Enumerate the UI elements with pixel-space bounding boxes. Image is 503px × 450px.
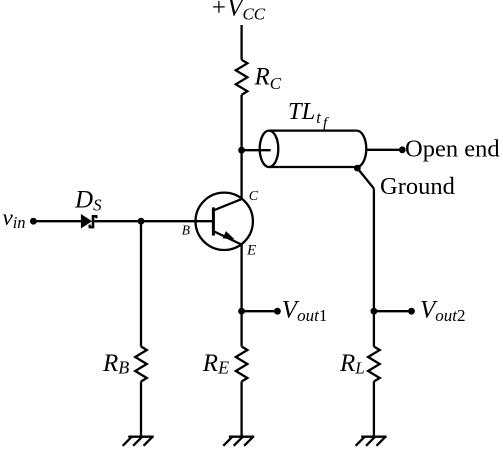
diode DS	[81, 214, 97, 229]
wire ground lead down to Vout2 junction	[373, 189, 375, 312]
wire base junction down to RB	[140, 221, 142, 346]
wire stub into TL	[242, 149, 271, 151]
node Vout1 terminal	[274, 308, 281, 315]
label Vout1	[282, 297, 328, 325]
wire vin to diode	[33, 220, 81, 222]
resistor RC	[236, 60, 248, 95]
wire emitter down to Vout1 junction	[240, 245, 242, 347]
label Vout2	[420, 297, 466, 325]
ground (RE)	[223, 437, 254, 446]
wire TL to open end	[366, 149, 402, 151]
svg-text:Open end: Open end	[405, 136, 500, 163]
label Ground	[380, 173, 455, 200]
node Vout2 terminal	[408, 308, 415, 315]
label RC	[254, 64, 282, 93]
svg-text:B: B	[182, 222, 190, 237]
wire diode to base junction	[94, 220, 141, 222]
ground (RB)	[123, 437, 154, 446]
wire Vout2 tap	[374, 310, 412, 312]
resistor RE	[236, 347, 248, 382]
wire TL ground diagonal	[357, 168, 374, 188]
wire RB to ground	[140, 382, 142, 437]
node open end terminal	[399, 146, 406, 153]
node TL junction dot	[238, 147, 245, 154]
svg-text:E: E	[246, 242, 256, 258]
transistor Q1	[196, 193, 253, 250]
label RE	[202, 350, 229, 378]
label B	[182, 222, 190, 237]
label vin	[3, 205, 26, 232]
transmission line TL body	[269, 129, 357, 131]
label Open end	[405, 136, 500, 163]
label C	[249, 189, 259, 204]
label RB	[102, 350, 129, 378]
resistor RL	[368, 347, 380, 382]
label RL	[339, 350, 365, 378]
wire VCC to RC	[240, 25, 242, 60]
wire Vout2 junction to RL	[373, 311, 375, 346]
node Vout2 junction dot	[371, 308, 378, 315]
label TLtf	[288, 98, 330, 132]
wire base junction to transistor base	[141, 220, 213, 222]
node TL ground dot	[354, 165, 361, 172]
ground (RL)	[356, 437, 387, 446]
wire RE to ground	[240, 382, 242, 437]
wire RC to collector (through TL junction)	[240, 95, 242, 200]
svg-text:C: C	[249, 189, 259, 204]
svg-text:Ground: Ground	[380, 173, 455, 200]
node vin terminal	[30, 218, 37, 225]
label E	[246, 242, 256, 258]
label +VCC	[210, 0, 265, 24]
wire Vout1 tap	[242, 310, 278, 312]
node base junction dot	[138, 218, 145, 225]
node Vout1 junction dot	[238, 308, 245, 315]
label DS	[74, 187, 102, 215]
resistor RB	[135, 347, 147, 382]
wire RL to ground	[373, 382, 375, 437]
